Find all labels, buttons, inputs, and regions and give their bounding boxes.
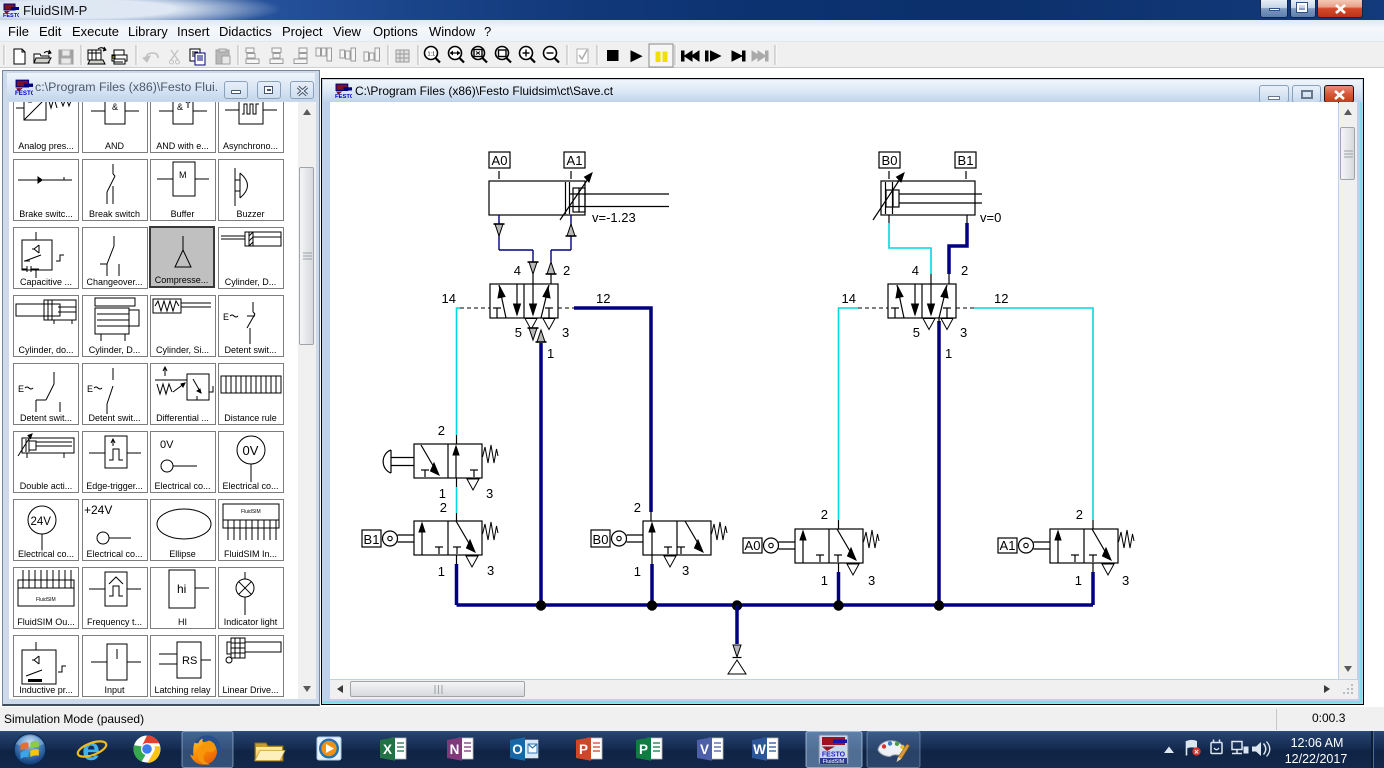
roller valve A1: [998, 507, 1134, 588]
svg-text:A1: A1: [567, 153, 583, 168]
toolbar: [0, 42, 1384, 68]
svg-text:×: ×: [1194, 748, 1199, 757]
svg-text:2: 2: [1076, 507, 1083, 522]
svg-text:5: 5: [515, 325, 522, 340]
circuit child window: [321, 78, 1364, 705]
svg-text:3: 3: [562, 325, 569, 340]
svg-text:12:06 AM: 12:06 AM: [1291, 736, 1344, 750]
svg-text:W: W: [753, 742, 766, 757]
svg-text:P: P: [639, 742, 648, 757]
svg-text:RS: RS: [182, 655, 197, 667]
svg-text:V: V: [700, 742, 709, 757]
svg-text:3: 3: [682, 563, 689, 578]
svg-text:1: 1: [439, 486, 446, 501]
push-button 3/2 valve: [383, 423, 498, 501]
svg-text:1: 1: [821, 573, 828, 588]
svg-text:M: M: [179, 170, 187, 180]
svg-text:1: 1: [547, 346, 554, 361]
svg-text:1: 1: [438, 564, 445, 579]
svg-text:X: X: [383, 742, 392, 757]
wire B0 valve port1 to bus: [651, 555, 653, 564]
svg-text:1: 1: [945, 346, 952, 361]
svg-text:FluidSIM: FluidSIM: [241, 509, 261, 515]
wire valve B port14 to A0 valve port2 (cyan): [839, 308, 859, 520]
svg-text:A0: A0: [745, 538, 761, 553]
status bar: [0, 706, 1384, 731]
compressed air supply: [728, 605, 746, 674]
roller valve B1: [362, 500, 498, 579]
svg-text:B1: B1: [958, 153, 974, 168]
roller valve B0 (actuated): [591, 500, 727, 579]
wire valve B port1 to bus: [937, 321, 941, 605]
svg-text:B1: B1: [364, 532, 380, 547]
wire B1 valve port1 to bus: [456, 555, 458, 564]
svg-text:A1: A1: [1000, 538, 1016, 553]
valve V2 (5/2-way pilot valve, right): [842, 263, 1009, 361]
svg-text:14: 14: [442, 291, 456, 306]
junction dots: [536, 600, 546, 610]
wire valve A port1 to bus: [539, 343, 543, 605]
svg-text:24V: 24V: [31, 516, 52, 528]
cylinder B (double-acting, retracted, v=0): [873, 152, 1001, 225]
svg-text:5: 5: [913, 325, 920, 340]
svg-text:FESTO: FESTO: [822, 752, 846, 759]
bottom h scrollbar: [330, 680, 1358, 699]
svg-text:v=-1.23: v=-1.23: [592, 210, 636, 225]
wire B-right (B1 side to valve B port 2, pressurized): [949, 215, 967, 284]
svg-text:2: 2: [563, 263, 570, 278]
svg-text:A0: A0: [492, 153, 508, 168]
svg-text:O: O: [512, 742, 523, 757]
taskbar: [0, 731, 1384, 768]
svg-text:FESTO: FESTO: [335, 94, 352, 99]
wire A-right (valve A port 2 to A1 side): [546, 215, 577, 284]
svg-text:1:1: 1:1: [428, 52, 436, 58]
svg-text:B0: B0: [882, 153, 898, 168]
svg-text:3: 3: [960, 325, 967, 340]
svg-text:2: 2: [438, 423, 445, 438]
svg-text:E: E: [18, 384, 24, 394]
svg-text:hi: hi: [177, 582, 186, 596]
svg-text:3: 3: [1122, 573, 1129, 588]
svg-text:+24V: +24V: [84, 503, 112, 517]
svg-text:&: &: [177, 102, 183, 112]
svg-text:3: 3: [868, 573, 875, 588]
pressure bus wire: [457, 603, 1094, 607]
svg-text:FluidSIM: FluidSIM: [36, 597, 56, 603]
lib vertical scrollbar: [298, 102, 316, 699]
svg-text:0V: 0V: [242, 443, 258, 458]
wire valve A port14 to push-button valve port2 (cyan): [457, 308, 461, 435]
wire A1 valve port1 to bus: [1092, 563, 1094, 572]
svg-text:FluidSIM: FluidSIM: [823, 759, 845, 765]
svg-text:N: N: [450, 742, 460, 757]
wire valve B port12 to A1 valve port2 (cyan): [974, 308, 1093, 520]
cylinder A (double-acting, extended, v=-1.23): [489, 152, 669, 225]
svg-text:B0: B0: [593, 532, 609, 547]
roller valve A0: [743, 507, 879, 588]
svg-text:E: E: [223, 312, 229, 322]
svg-text:P: P: [579, 742, 588, 757]
svg-text:4: 4: [912, 263, 919, 278]
right v scrollbar: [1339, 102, 1357, 679]
valve V1 (5/2-way pilot valve, left): [442, 263, 611, 361]
svg-text:2: 2: [961, 263, 968, 278]
wire valve A port12 to valve B0 port2: [574, 308, 651, 512]
library child window: [2, 70, 320, 706]
svg-text:2: 2: [821, 507, 828, 522]
svg-text:4: 4: [514, 263, 521, 278]
svg-text:2: 2: [634, 500, 641, 515]
svg-text:FESTO: FESTO: [15, 90, 33, 96]
wire push valve port1 to B1 valve port2 (cyan): [456, 478, 458, 487]
wire B-left (B0 side to valve B port 4, cyan): [889, 215, 931, 284]
svg-text:12: 12: [994, 291, 1008, 306]
svg-text:v=0: v=0: [980, 210, 1001, 225]
svg-text:e: e: [82, 731, 100, 767]
svg-text:2: 2: [440, 500, 447, 515]
svg-text:E: E: [87, 384, 93, 394]
wire A-left (port A0 side to valve A port 4): [494, 215, 539, 284]
wire A0 valve port1 to bus: [838, 563, 840, 572]
svg-text:&: &: [112, 102, 118, 112]
svg-text:12/22/2017: 12/22/2017: [1285, 752, 1348, 766]
main title bar: [0, 0, 1384, 20]
svg-text:0V: 0V: [160, 439, 174, 451]
svg-text:1: 1: [1075, 573, 1082, 588]
menu bar: [0, 20, 1384, 42]
svg-text:12: 12: [596, 291, 610, 306]
svg-text:3: 3: [487, 563, 494, 578]
svg-text:14: 14: [842, 291, 856, 306]
svg-text:1: 1: [634, 564, 641, 579]
svg-text:FESTO: FESTO: [3, 13, 19, 18]
svg-text:3: 3: [486, 486, 493, 501]
